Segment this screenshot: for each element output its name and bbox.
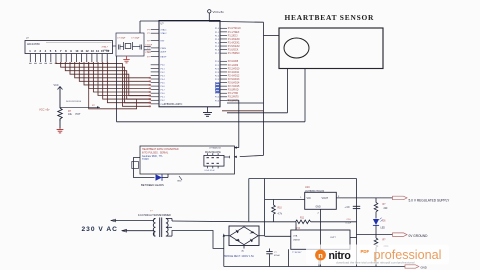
MCU U1 AT89C51 bbox=[159, 21, 220, 107]
LCD connector J1 (HD44780 header) bbox=[25, 41, 113, 54]
bottom pointer GND bbox=[405, 265, 419, 268]
VCC symbol above potentiometer bbox=[58, 87, 63, 90]
svg-text:GND: GND bbox=[316, 207, 321, 209]
wire bridge minus down bbox=[223, 236, 225, 267]
svg-text:OUT?: OUT? bbox=[330, 237, 337, 239]
transformer T1 bbox=[153, 219, 155, 237]
svg-text:VCC +5v: VCC +5v bbox=[39, 108, 50, 112]
capacitor C8 on bridge output bbox=[269, 254, 271, 266]
svg-text:P1.0/T2CLK: P1.0/T2CLK bbox=[228, 27, 241, 30]
svg-text:P2.3/AD11: P2.3/AD11 bbox=[228, 71, 240, 74]
wire sensor line y=112.8 bbox=[227, 112, 288, 114]
svg-text:P3.0/RXD: P3.0/RXD bbox=[228, 89, 239, 92]
svg-text:BRIDGE RECT. 1000V 1.5A: BRIDGE RECT. 1000V 1.5A bbox=[224, 255, 254, 258]
svg-text:P2.1/AD9: P2.1/AD9 bbox=[228, 64, 239, 67]
svg-text:P1.4/CEX1: P1.4/CEX1 bbox=[228, 41, 240, 44]
MAX232 pin ticks top bbox=[206, 153, 208, 155]
wire comparator top stub bbox=[295, 222, 297, 230]
wire sensor signal bbox=[264, 35, 280, 37]
svg-text:P1.5/CEX2: P1.5/CEX2 bbox=[228, 45, 240, 48]
resistor on loop bbox=[132, 162, 139, 169]
wire bus8 bbox=[93, 62, 150, 92]
svg-text:n: n bbox=[318, 251, 323, 260]
svg-text:LM358: LM358 bbox=[293, 239, 300, 241]
VCC power symbol bbox=[208, 10, 211, 13]
svg-text:C? 33pF: C? 33pF bbox=[131, 37, 140, 39]
watermark backdrop bbox=[306, 245, 449, 265]
LED D5 (serial activity) bbox=[156, 174, 163, 180]
MCU right pins (P2/P3 group) bbox=[220, 60, 227, 62]
svg-text:P1.3/CEX0: P1.3/CEX0 bbox=[228, 38, 240, 41]
wire ground line mid bbox=[357, 234, 393, 236]
wire top VCC rail bbox=[140, 20, 209, 22]
svg-text:VCC+5v: VCC+5v bbox=[213, 10, 225, 14]
svg-text:10: 10 bbox=[75, 49, 78, 53]
svg-text:0.1uF: 0.1uF bbox=[346, 222, 352, 224]
svg-text:R10: R10 bbox=[278, 207, 283, 209]
svg-text:PDF: PDF bbox=[361, 249, 370, 254]
svg-text:HD44780: HD44780 bbox=[27, 42, 40, 46]
svg-text:P2.2/AD10: P2.2/AD10 bbox=[228, 67, 240, 70]
wire output pointer 5V bbox=[393, 196, 408, 200]
wire regulator gnd pin bbox=[320, 209, 322, 266]
wire mains top bbox=[111, 220, 154, 222]
heartbeat sensor box bbox=[279, 28, 383, 69]
svg-text:VIN: VIN bbox=[307, 197, 311, 200]
crystal Y1 bbox=[125, 44, 131, 49]
wire: header title rule bbox=[46, 42, 112, 44]
wire regulator input bbox=[265, 199, 305, 201]
svg-text:P2.0/AD8: P2.0/AD8 bbox=[228, 60, 239, 63]
wire comparator gnd stubs bbox=[288, 249, 290, 266]
wire vertical x=116.5 bbox=[116, 56, 118, 122]
svg-text:P3.2/INT0: P3.2/INT0 bbox=[228, 96, 239, 99]
svg-text:12MHz: 12MHz bbox=[103, 50, 110, 52]
svg-text:P1.2/ECI: P1.2/ECI bbox=[228, 34, 238, 37]
svg-text:HEARTBEAT SENSOR: HEARTBEAT SENSOR bbox=[285, 13, 375, 22]
MAX232 pin ticks bottom bbox=[206, 166, 208, 168]
potentiometer R-pot zigzag bbox=[58, 108, 62, 121]
svg-text:P1.1/T2EX: P1.1/T2EX bbox=[228, 31, 240, 34]
wire RXD down bbox=[240, 155, 264, 156]
wire bridge plus up bbox=[264, 179, 266, 236]
svg-text:VCC: VCC bbox=[54, 84, 59, 87]
wire pot top bbox=[59, 87, 61, 108]
wire bus9 bbox=[98, 62, 151, 96]
wire mains bottom bbox=[122, 230, 154, 232]
wire long y=121.8 bbox=[117, 121, 306, 123]
wire into comparator bbox=[265, 235, 291, 237]
regulator U10 box bbox=[305, 192, 337, 209]
wire crystal to MCU XTAL pins bbox=[144, 46, 151, 48]
svg-text:12: 12 bbox=[86, 49, 89, 53]
wire crystal horizontals bbox=[120, 46, 123, 48]
wire vertical x356 bbox=[356, 179, 358, 267]
wire bus3 bbox=[70, 62, 151, 96]
svg-text:C?22pF: C?22pF bbox=[145, 44, 153, 46]
wire LCD to crystal bbox=[113, 45, 117, 47]
svg-text:P3.1/TXD: P3.1/TXD bbox=[228, 92, 239, 95]
wire rail drop to crystal frame bbox=[139, 21, 141, 33]
svg-text:C? 33pF: C? 33pF bbox=[117, 37, 126, 39]
svg-text:GND: GND bbox=[177, 181, 182, 183]
svg-text:VOUT: VOUT bbox=[322, 197, 329, 200]
svg-text:P1.7/MISO: P1.7/MISO bbox=[228, 52, 240, 55]
bridge right pin bbox=[259, 235, 265, 237]
comparator U9A box bbox=[291, 230, 350, 249]
resistor R3 bbox=[375, 198, 377, 203]
svg-text:POT: POT bbox=[76, 113, 81, 116]
MCU left pins (P0 group) bbox=[151, 64, 159, 66]
svg-text:U10: U10 bbox=[305, 186, 310, 189]
ground (pot) bbox=[59, 128, 61, 130]
svg-text:INTO PULSES . SERIAL: INTO PULSES . SERIAL bbox=[142, 151, 169, 154]
wire vertical bus x=263.5 bbox=[263, 22, 265, 155]
wire: header pin13 down-right L bbox=[89, 62, 137, 109]
wire bus7 bbox=[89, 62, 151, 89]
svg-text:P2.4/AD12: P2.4/AD12 bbox=[228, 74, 240, 77]
svg-text:470uF: 470uF bbox=[274, 255, 281, 257]
sensor window (ellipse) bbox=[284, 38, 309, 58]
Atmel blue mark bbox=[215, 83, 219, 93]
wire pot wiper bbox=[60, 106, 100, 108]
MAX232 right stub bbox=[224, 156, 229, 158]
wire bus1 bbox=[61, 62, 151, 103]
wire mid rail with R11 bbox=[249, 221, 296, 223]
svg-text:9-0-9 500mA TRANSFORMER: 9-0-9 500mA TRANSFORMER bbox=[138, 214, 171, 217]
wire bus5 bbox=[79, 62, 150, 81]
MCU ground bbox=[207, 107, 209, 113]
bridge left pin with arrow bbox=[224, 235, 229, 237]
transformer secondary taps bbox=[166, 218, 172, 220]
wire bus6 bbox=[84, 62, 151, 85]
svg-text:AT89C51-24PC: AT89C51-24PC bbox=[164, 102, 183, 106]
wire bus2 bbox=[65, 62, 150, 99]
wire maroon y=111 bbox=[222, 110, 264, 112]
svg-text:P2.5/AD13: P2.5/AD13 bbox=[228, 78, 240, 81]
MCU left pins (upper) bbox=[151, 29, 159, 31]
svg-text:230 V AC: 230 V AC bbox=[82, 226, 118, 233]
capacitor C2 plates bbox=[139, 45, 141, 50]
svg-text:XTAL2: XTAL2 bbox=[161, 32, 168, 35]
svg-text:EA/VP: EA/VP bbox=[161, 56, 168, 59]
LED D6 bbox=[373, 219, 379, 225]
resistor R10 vertical bbox=[273, 200, 275, 206]
wire sensor power drops bbox=[287, 69, 289, 113]
wire bottom ground rail bbox=[224, 266, 405, 268]
svg-text:XTAL?: XTAL? bbox=[102, 46, 109, 49]
svg-text:13: 13 bbox=[91, 49, 94, 53]
nitro logo circle bbox=[315, 250, 326, 261]
serial interface box bbox=[140, 146, 235, 174]
svg-text:+ C9: + C9 bbox=[345, 207, 351, 209]
wire bus4 bbox=[75, 62, 151, 78]
svg-text:TX/RX: TX/RX bbox=[142, 159, 149, 161]
svg-text:P2.7/AD15: P2.7/AD15 bbox=[228, 85, 240, 88]
svg-text:U?A: U?A bbox=[293, 235, 298, 238]
svg-text:0.1uF 0.1uF: 0.1uF 0.1uF bbox=[205, 170, 216, 172]
header pin tiny labels bbox=[29, 63, 32, 64]
bridge rectifier BR1 bbox=[229, 226, 259, 246]
MCU top pin VCC bbox=[208, 20, 210, 23]
wire top frame power bbox=[249, 178, 357, 180]
svg-text:5.0 V REGULATED SUPPLY: 5.0 V REGULATED SUPPLY bbox=[409, 198, 451, 202]
svg-text:PSEN: PSEN bbox=[161, 48, 167, 50]
svg-text:U? MAX232: U? MAX232 bbox=[209, 146, 222, 149]
bridge bottom pin bbox=[243, 246, 245, 249]
wire loop left of serial box bbox=[134, 158, 155, 178]
MCU right pins (P1 group) bbox=[220, 27, 227, 29]
svg-text:LED: LED bbox=[381, 227, 386, 229]
svg-text:ALE/P: ALE/P bbox=[161, 51, 167, 54]
svg-text:P1.6/SCK: P1.6/SCK bbox=[228, 49, 239, 52]
resistor R4 bbox=[375, 235, 377, 238]
capacitor C1 plates bbox=[117, 45, 119, 50]
MAX232 inner pin marks bbox=[207, 157, 209, 158]
crystal oscillator frame bbox=[116, 33, 144, 56]
wire regulator output bbox=[336, 197, 392, 199]
ground (crystal) red bbox=[126, 56, 128, 60]
svg-text:download the free trial online: download the free trial online at nitrop… bbox=[336, 260, 415, 264]
capacitor C9 bbox=[353, 205, 360, 207]
svg-text:BETWEEN LEADS: BETWEEN LEADS bbox=[141, 183, 164, 187]
svg-text:baudrate 9600 , TTL: baudrate 9600 , TTL bbox=[142, 155, 163, 158]
wire secondary top to bridge column bbox=[171, 219, 173, 222]
wire frame left drop bbox=[248, 179, 250, 222]
wire bus0 bbox=[56, 62, 151, 106]
wire secondary bottom path bbox=[172, 231, 224, 249]
svg-text:P3.3/INT1: P3.3/INT1 bbox=[228, 99, 239, 102]
wire bus11 bbox=[107, 62, 150, 103]
wire pot bottom bbox=[59, 119, 61, 128]
svg-text:GND: GND bbox=[421, 266, 427, 270]
header pin stubs bbox=[29, 54, 31, 63]
svg-text:14: 14 bbox=[96, 49, 99, 53]
svg-text:P2.6/AD14: P2.6/AD14 bbox=[228, 82, 240, 85]
wire bus10 bbox=[103, 62, 151, 99]
resistor R11 horizontal bbox=[296, 220, 311, 224]
ground pointer bbox=[393, 233, 408, 237]
wire MCU to bus y=103 bbox=[227, 102, 264, 104]
wire TXD down bbox=[227, 99, 239, 101]
wire comparator out bbox=[350, 237, 357, 239]
svg-text:D0 D1 D2 D3 D4: D0 D1 D2 D3 D4 bbox=[66, 101, 82, 103]
svg-text:XTAL1: XTAL1 bbox=[161, 29, 168, 32]
svg-text:T? BC547: T? BC547 bbox=[292, 252, 302, 254]
bridge diodes bbox=[236, 230, 239, 234]
svg-text:0V GROUND: 0V GROUND bbox=[409, 234, 429, 238]
